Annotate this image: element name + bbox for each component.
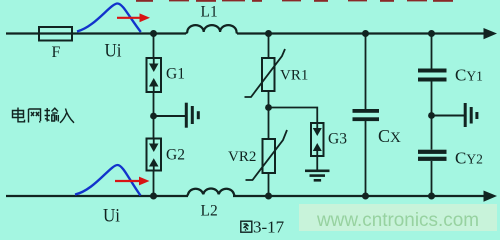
- chassis ground right (vertical bars): [464, 103, 479, 127]
- svg-text:L2: L2: [201, 203, 218, 220]
- wire mid node to G2: [153, 116, 155, 139]
- red arrow top: [117, 17, 140, 19]
- node bottom CX: [362, 193, 369, 200]
- wire bottom rail right of L2: [233, 195, 484, 197]
- svg-text:G3: G3: [328, 131, 347, 148]
- capacitor CY2: [418, 150, 447, 161]
- wire top rail right of L1: [237, 32, 484, 34]
- svg-text:Ui: Ui: [103, 206, 120, 227]
- surge pulse waveform bottom (blue): [75, 165, 141, 196]
- varistor VR1: [245, 49, 286, 97]
- node between VR1 and VR2: [265, 104, 272, 111]
- wire top rail: [6, 32, 186, 34]
- svg-text:CY1: CY1: [455, 66, 483, 85]
- gas discharge tube G2: [147, 139, 162, 171]
- watermark band: [299, 204, 497, 231]
- wire G2 to bottom rail: [153, 171, 155, 197]
- wire from node to G1: [153, 34, 155, 59]
- chassis ground left (vertical bars): [185, 103, 200, 128]
- wire CX to bottom rail: [365, 121, 367, 196]
- node bottom-left junction: [150, 193, 157, 200]
- svg-text:F: F: [52, 44, 61, 61]
- earth ground below G3: [305, 170, 330, 182]
- surge pulse waveform top (blue): [77, 4, 141, 33]
- svg-text:G1: G1: [166, 66, 185, 83]
- node bottom VR2: [265, 193, 272, 200]
- wire top to CY1: [431, 34, 433, 69]
- cropped title text fragments (dark red): [136, 0, 453, 2]
- wire node to VR1: [268, 34, 270, 59]
- label dianwang shuru (power grid input, drawn glyphs): [13, 108, 75, 123]
- svg-text:VR1: VR1: [280, 68, 308, 84]
- svg-text:Ui: Ui: [105, 41, 122, 62]
- arrowhead top rail output: [484, 28, 498, 39]
- inductor L1: [186, 25, 237, 33]
- wire VR1 to mid node: [268, 91, 270, 108]
- wire top to CX: [365, 34, 367, 110]
- wire VR2 to bottom rail: [268, 173, 270, 196]
- red arrow bottom: [115, 180, 139, 182]
- capacitor CX: [353, 109, 380, 121]
- svg-text:G2: G2: [166, 147, 185, 164]
- arrowhead bottom rail output: [484, 191, 498, 202]
- wire mid node to CY2: [431, 116, 433, 150]
- inductor L2: [187, 189, 235, 196]
- gas discharge tube G3: [311, 123, 324, 156]
- node between G1 and G2: [150, 113, 157, 120]
- wire G3 to earth ground: [316, 156, 318, 170]
- svg-text:3-17: 3-17: [253, 218, 285, 235]
- capacitor CY1: [418, 69, 447, 82]
- svg-text:CY2: CY2: [455, 149, 483, 168]
- node top VR1: [265, 30, 272, 37]
- wire to right chassis ground: [432, 115, 465, 117]
- gas discharge tube G1: [147, 58, 162, 92]
- node top CX: [362, 30, 369, 37]
- node top-left junction: [150, 30, 157, 37]
- wire to left chassis ground: [154, 115, 186, 117]
- fuse F: [39, 27, 72, 41]
- wire G1 to mid node: [153, 92, 155, 116]
- wire mid node to VR2: [268, 108, 270, 140]
- node top CY1: [428, 30, 435, 37]
- varistor VR2: [246, 130, 288, 180]
- svg-text:L1: L1: [201, 4, 218, 21]
- wire CY1 to mid node: [431, 82, 433, 116]
- caption tu (figure) glyph: [241, 221, 252, 232]
- node bottom CY2: [428, 193, 435, 200]
- svg-text:www.cntronics.com: www.cntronics.com: [316, 209, 479, 231]
- wire bottom rail: [6, 195, 188, 197]
- svg-text:VR2: VR2: [228, 149, 256, 165]
- wire mid node to G3: [269, 108, 318, 124]
- node between CY1 and CY2: [428, 112, 435, 119]
- wire CY2 to bottom rail: [431, 161, 433, 196]
